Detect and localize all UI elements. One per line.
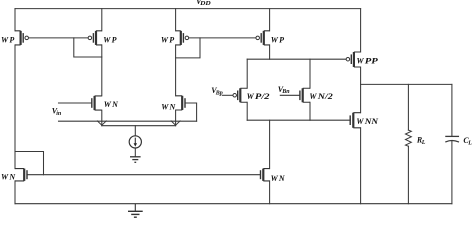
svg-text:VDD: VDD: [196, 0, 212, 7]
svg-text:WPP: WPP: [357, 56, 378, 65]
svg-text:WN/2: WN/2: [309, 92, 332, 101]
svg-text:VBp: VBp: [211, 86, 222, 96]
svg-text:VBn: VBn: [278, 85, 290, 95]
svg-text:WN: WN: [161, 103, 176, 112]
svg-text:WP: WP: [271, 35, 284, 44]
svg-text:WNN: WNN: [356, 117, 379, 126]
svg-text:CL: CL: [463, 136, 472, 146]
svg-text:WP: WP: [161, 35, 174, 44]
svg-text:Vin: Vin: [52, 107, 62, 117]
svg-text:RL: RL: [416, 136, 426, 146]
svg-text:WP: WP: [103, 35, 116, 44]
svg-text:WN: WN: [104, 100, 119, 109]
svg-text:WP: WP: [1, 35, 14, 44]
svg-text:WN: WN: [1, 173, 16, 182]
svg-text:WP/2: WP/2: [247, 92, 270, 101]
svg-text:WN: WN: [271, 174, 286, 183]
